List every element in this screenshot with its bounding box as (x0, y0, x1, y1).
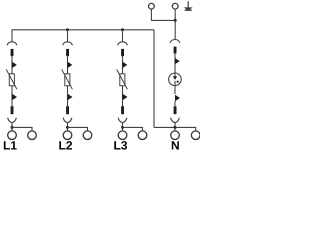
wire: top bus to socket L2 (67, 30, 69, 42)
wire: PE node down to socket N (174, 20, 176, 39)
plug pin (bottom) N (174, 106, 177, 114)
terminal circle N left (171, 131, 180, 140)
varistor L3: diagonal stroke (117, 69, 128, 89)
terminal circle L2 left (63, 131, 72, 140)
terminal circle L2 right (83, 131, 92, 140)
disconnect arrow (top) N (175, 58, 180, 64)
junction: L3 double-terminal node (121, 126, 124, 129)
wire: socket to terminal junction L1 (11, 123, 13, 132)
gas discharge tube: gas dot (177, 81, 179, 83)
disconnect arrow (top) L3 (123, 62, 128, 69)
disconnect arrow (top) L1 (12, 62, 17, 69)
label L1 (4, 141, 17, 149)
wire: top bus to socket L3 (122, 30, 124, 42)
wire: varistor to lower pin L2 (67, 86, 69, 107)
connector socket (bottom) L1 (8, 118, 17, 123)
plug pin (bottom) L3 (121, 106, 124, 114)
wire: right riser from top bus to bottom N bus (153, 30, 155, 128)
varistor L1: body (9, 74, 14, 86)
wire: pin to varistor L3 (122, 56, 124, 74)
connector socket (top) L2 (63, 42, 73, 46)
label N (172, 141, 179, 149)
disconnect arrow (bottom) L2 (68, 94, 73, 100)
junction: L2 tap on top bus (66, 28, 69, 31)
plug pin (bottom) L1 (11, 106, 14, 114)
connector socket (bottom) L3 (118, 118, 127, 123)
earth symbol (184, 1, 193, 11)
disconnect arrow (bottom) L1 (12, 94, 17, 100)
connector socket (bottom) L2 (63, 118, 72, 123)
connector socket (bottom) N (171, 118, 180, 123)
plug pin (top) L2 (66, 49, 69, 56)
terminal circle L3 right (138, 131, 147, 140)
junction: N bus node (174, 126, 177, 129)
label L2 (59, 141, 72, 149)
junction: L3 tap on top bus (121, 28, 124, 31)
wire: bottom N bus with elbow to right terminal (154, 127, 196, 131)
gas discharge tube: top electrode with arrow (174, 73, 176, 77)
gas discharge tube: bottom electrode (174, 81, 176, 94)
wire: PE right terminal to node (174, 9, 176, 20)
wire: pin to varistor L2 (67, 56, 69, 74)
connector socket (top) L3 (118, 42, 128, 46)
plug pin (top) N (174, 47, 177, 54)
wire: pin to varistor L1 (11, 56, 13, 74)
varistor L3: body (120, 74, 125, 86)
wire: to right terminal L2 (68, 127, 88, 131)
terminal circle PE left (top) (149, 3, 155, 9)
wire: pin to gas discharge tube N (174, 53, 176, 73)
disconnect arrow (bottom) N (175, 95, 180, 101)
terminal circle L3 left (118, 131, 127, 140)
varistor L2: body (65, 74, 70, 86)
varistor L1: diagonal stroke (6, 69, 17, 89)
branch L1 (4, 42, 36, 150)
varistor L2: diagonal stroke (62, 69, 73, 89)
label L3 (114, 141, 127, 150)
connector socket (top) L1 (7, 42, 17, 46)
wire: to right terminal L3 (123, 127, 143, 131)
wire: varistor to lower pin L1 (11, 86, 13, 107)
junction: L2 double-terminal node (66, 126, 69, 129)
wire: varistor to lower pin L3 (122, 86, 124, 107)
wire: socket to terminal junction L2 (67, 123, 69, 132)
plug pin (top) L3 (121, 49, 124, 56)
disconnect arrow (top) L2 (68, 62, 73, 69)
terminal circle L1 left (8, 131, 17, 140)
wire: socket to terminal junction L3 (122, 123, 124, 132)
wire: to right terminal L1 (12, 127, 32, 131)
wire: arrow to pin N (174, 101, 176, 107)
branch L3 (114, 30, 146, 150)
disconnect arrow (bottom) L3 (123, 94, 128, 100)
gas discharge tube: envelope (169, 73, 182, 86)
branch L2 (59, 30, 91, 150)
wire: PE left terminal to node (151, 9, 175, 20)
plug pin (bottom) L2 (66, 106, 69, 114)
terminal circle L1 right (28, 131, 37, 140)
branch N / PE with gas discharge tube (149, 1, 201, 149)
connector socket (top) N (170, 40, 180, 44)
wire: socket to N bus (174, 123, 176, 132)
terminal circle N right (191, 131, 200, 140)
terminal circle PE right (top) (172, 3, 178, 9)
plug pin (top) L1 (11, 49, 14, 56)
wire: top bus from L1 to right riser (12, 30, 154, 42)
junction: L1 double-terminal node (11, 126, 14, 129)
junction: PE node (174, 19, 177, 22)
